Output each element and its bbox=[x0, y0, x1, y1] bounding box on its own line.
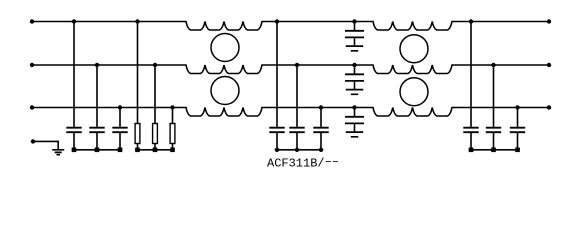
svg-text:ACF311B/––: ACF311B/–– bbox=[267, 155, 339, 171]
